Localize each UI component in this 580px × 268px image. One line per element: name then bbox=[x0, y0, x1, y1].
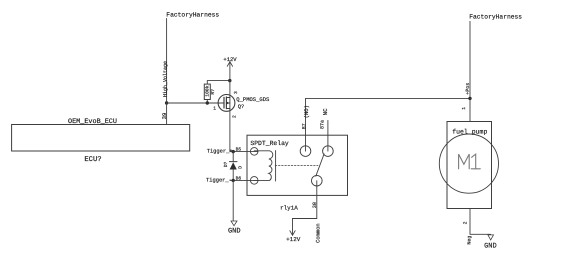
wire drain to relay row bbox=[229, 109, 231, 152]
svg-text:1: 1 bbox=[213, 106, 216, 112]
svg-text:rly1A: rly1A bbox=[280, 204, 298, 211]
wire Tigger_- row bbox=[230, 179, 258, 181]
node junction at ECU pin 39 bbox=[165, 101, 168, 104]
svg-text:39: 39 bbox=[161, 113, 168, 120]
svg-text:SPDT_Relay: SPDT_Relay bbox=[250, 140, 289, 147]
svg-text:Neg: Neg bbox=[466, 236, 472, 245]
resistor bottom stub bbox=[206, 100, 208, 104]
power +12V top symbol bbox=[223, 56, 237, 81]
svg-text:87: 87 bbox=[301, 123, 307, 129]
diode D? bbox=[229, 152, 237, 181]
wire Tigger_+ row bbox=[230, 151, 258, 153]
ECU U? box bbox=[12, 125, 190, 152]
relay contact 87a bbox=[323, 146, 334, 157]
node junction resistor/gate bbox=[206, 101, 209, 104]
relay actuator dashed link bbox=[275, 164, 318, 166]
wire to coil ground bbox=[232, 180, 234, 220]
svg-text:100k: 100k bbox=[205, 85, 211, 96]
transistor Q? Q_PMOS_GDS bbox=[218, 95, 235, 112]
power +12V bottom symbol bbox=[286, 231, 301, 243]
relay armature bbox=[316, 154, 324, 176]
svg-text:D?: D? bbox=[223, 161, 229, 167]
wire FactoryHarness vertical (right) bbox=[469, 21, 471, 121]
svg-text:2: 2 bbox=[231, 115, 237, 118]
svg-text:R?: R? bbox=[210, 89, 216, 95]
resistor R? body bbox=[204, 84, 210, 99]
svg-text:GND: GND bbox=[228, 228, 241, 236]
node junction fuel pump pin 1 bbox=[468, 97, 471, 100]
svg-text:Tigger_-: Tigger_- bbox=[206, 177, 232, 183]
ground symbol (coil) bbox=[228, 221, 241, 236]
svg-text:Tigger_+: Tigger_+ bbox=[207, 148, 233, 154]
svg-text:GND: GND bbox=[484, 243, 497, 251]
svg-text:1: 1 bbox=[461, 107, 467, 110]
svg-text:3: 3 bbox=[233, 91, 239, 94]
svg-text:2: 2 bbox=[463, 221, 469, 224]
wire +12V to Q source bbox=[229, 81, 231, 98]
relay contact 87 bbox=[300, 146, 311, 157]
svg-text:FactoryHarness: FactoryHarness bbox=[469, 14, 522, 21]
node junction diode bottom bbox=[232, 179, 235, 182]
resistor R? top wire bbox=[207, 81, 229, 85]
svg-text:FactoryHarness: FactoryHarness bbox=[166, 12, 219, 19]
svg-text:+Pos: +Pos bbox=[465, 83, 471, 95]
svg-text:NC: NC bbox=[322, 108, 329, 115]
svg-text:Common: Common bbox=[315, 223, 322, 243]
svg-text:87a: 87a bbox=[319, 120, 325, 129]
svg-text:Q?: Q? bbox=[238, 104, 244, 110]
svg-text:+12V: +12V bbox=[286, 236, 301, 243]
wire pin 2 to ground bbox=[470, 209, 491, 235]
svg-text:30: 30 bbox=[312, 202, 318, 208]
motor text M1 bbox=[459, 154, 481, 169]
relay rly1A SPDT_Relay box bbox=[247, 135, 348, 195]
node junction diode top bbox=[232, 150, 235, 153]
wire gate row bbox=[167, 102, 224, 104]
relay pin B5 bbox=[250, 148, 258, 156]
node junction +12V bbox=[228, 79, 231, 82]
ground symbol (fuel pump) bbox=[484, 235, 497, 251]
svg-text:B6: B6 bbox=[236, 176, 242, 182]
relay contact common 30 bbox=[312, 175, 323, 186]
wire FactoryHarness vertical (left) bbox=[166, 19, 168, 104]
wire pin 87 to fuel pump bbox=[306, 98, 471, 151]
relay core bar bbox=[275, 151, 277, 181]
motor circle bbox=[439, 134, 498, 193]
relay pin B6 bbox=[250, 177, 258, 185]
wire pin 30 to +12V bbox=[293, 181, 317, 236]
motor M1 fuel_pump box bbox=[447, 122, 492, 209]
pin 87a stub bbox=[327, 121, 329, 152]
svg-text:OEM_EvoB_ECU: OEM_EvoB_ECU bbox=[68, 118, 117, 126]
svg-text:D: D bbox=[237, 166, 243, 169]
relay coil bbox=[254, 151, 273, 181]
svg-text:B5: B5 bbox=[236, 146, 242, 152]
svg-text:ECU?: ECU? bbox=[84, 156, 101, 164]
svg-text:High_Voltage: High_Voltage bbox=[162, 61, 168, 97]
pin 39 stub bbox=[166, 103, 168, 125]
svg-text:Q_PMOS_GDS: Q_PMOS_GDS bbox=[236, 96, 270, 103]
svg-text:(NO): (NO) bbox=[303, 105, 310, 118]
